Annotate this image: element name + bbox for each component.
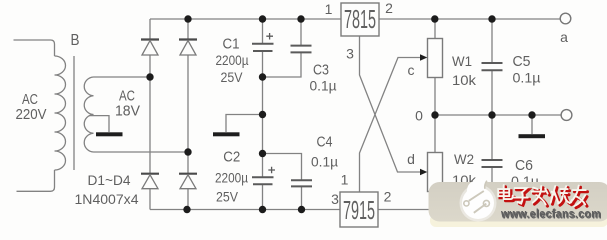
wire center node to ground bar: [226, 115, 263, 133]
wire C5 column: [491, 19, 493, 115]
char fa: [534, 188, 550, 207]
wire 7815 pin3 to d: [360, 36, 422, 172]
wire top rail left: [150, 18, 341, 20]
wire primary top lead: [14, 40, 55, 56]
ground bar near C2: [213, 132, 240, 136]
svg-text:7815: 7815: [344, 4, 376, 34]
watermark glow: [430, 214, 607, 227]
wire C1 C2 column: [262, 19, 264, 210]
svg-text:C3: C3: [313, 62, 329, 79]
ground bar right: [519, 134, 546, 138]
svg-text:B: B: [71, 32, 80, 49]
svg-text:C5: C5: [513, 53, 531, 70]
diode D2: [179, 40, 197, 56]
wire W2 stubs: [434, 115, 436, 210]
capacitor C6 plates: [482, 160, 503, 167]
wire bottom rail left: [150, 209, 340, 211]
svg-text:2200µ: 2200µ: [216, 52, 249, 68]
watermark panel: [429, 182, 607, 222]
svg-text:W2: W2: [454, 151, 474, 167]
svg-text:18V: 18V: [115, 103, 140, 120]
svg-text:www.elecfans.com: www.elecfans.com: [500, 209, 601, 221]
wire 7915 pin1 to c: [360, 58, 422, 193]
char dian: [500, 187, 515, 201]
capacitor C2 plates: [252, 177, 274, 184]
svg-text:2: 2: [385, 0, 393, 16]
svg-text:C6: C6: [515, 157, 533, 174]
svg-text:1: 1: [341, 172, 349, 188]
svg-text:10k: 10k: [452, 72, 477, 88]
watermark chinese text white highlight: [498, 185, 586, 206]
terminal 0 circle: [561, 110, 572, 121]
svg-text:c: c: [408, 62, 415, 78]
svg-text:25V: 25V: [221, 69, 244, 85]
svg-text:D1~D4: D1~D4: [88, 172, 131, 188]
transformer core: [73, 56, 75, 170]
wire center tap lead: [89, 116, 109, 132]
svg-text:3: 3: [331, 191, 339, 207]
svg-text:0.1µ: 0.1µ: [310, 78, 337, 94]
W2 wiper arrow: [420, 169, 427, 176]
transformer secondary winding: [84, 77, 93, 152]
wire secondary top to bridge: [94, 76, 151, 78]
potentiometer W1 body: [428, 39, 443, 78]
capacitor C4 plates: [291, 180, 312, 186]
ground bar center tap: [96, 132, 123, 136]
wire bottom rail right: [378, 209, 556, 211]
svg-text:C1: C1: [223, 36, 240, 53]
svg-text:C4: C4: [317, 134, 333, 151]
wire W1 stubs: [434, 19, 436, 115]
capacitor C3 plates: [291, 46, 312, 53]
wire primary bottom lead: [17, 170, 55, 191]
capacitor C5 plates: [482, 63, 503, 70]
svg-text:3: 3: [346, 46, 354, 62]
watermark elecfans: [429, 180, 607, 227]
svg-text:a: a: [560, 29, 568, 45]
watermark chinese text red shadow: [500, 187, 588, 208]
svg-text:0.1µ: 0.1µ: [513, 70, 541, 86]
wire secondary bottom to bridge: [94, 151, 189, 153]
regulator U2 7915: [340, 192, 378, 227]
terminal a circle: [560, 13, 571, 24]
svg-text:25V: 25V: [216, 189, 239, 205]
wire C3 branch: [263, 19, 302, 77]
svg-text:7915: 7915: [343, 195, 375, 225]
svg-text:2: 2: [384, 189, 392, 205]
C1 plus sign: [266, 33, 273, 40]
char shao: [553, 188, 574, 206]
wire bridge right column: [187, 19, 189, 210]
svg-text:1: 1: [325, 1, 333, 17]
svg-text:C2: C2: [223, 149, 240, 166]
capacitor C1 plates: [252, 44, 274, 51]
regulator U1 7815: [341, 3, 379, 36]
svg-text:0: 0: [415, 108, 423, 124]
char zi: [515, 190, 530, 206]
transformer B primary winding: [55, 56, 66, 170]
char you: [572, 187, 588, 208]
svg-text:1N4007x4: 1N4007x4: [75, 191, 139, 207]
wire C4 branch: [263, 154, 302, 210]
wire C6 column: [491, 115, 493, 210]
W1 wiper arrow: [420, 54, 427, 61]
logo drop: [460, 185, 497, 222]
C2 plus sign: [268, 167, 275, 174]
svg-text:W1: W1: [452, 53, 472, 69]
diode D1: [141, 40, 159, 56]
svg-text:d: d: [407, 151, 415, 167]
wire 0V middle rail: [435, 114, 562, 116]
svg-text:0.1µ: 0.1µ: [311, 154, 338, 170]
svg-text:2200µ: 2200µ: [215, 170, 248, 186]
logo circuit marks: [464, 181, 490, 213]
wire top rail right: [379, 18, 561, 20]
wire ground stub right: [531, 115, 533, 134]
potentiometer W2 body: [428, 153, 443, 192]
diode D4: [179, 174, 197, 189]
diode D3: [141, 174, 159, 189]
svg-text:220V: 220V: [16, 106, 47, 123]
wire bridge left column: [149, 19, 151, 210]
